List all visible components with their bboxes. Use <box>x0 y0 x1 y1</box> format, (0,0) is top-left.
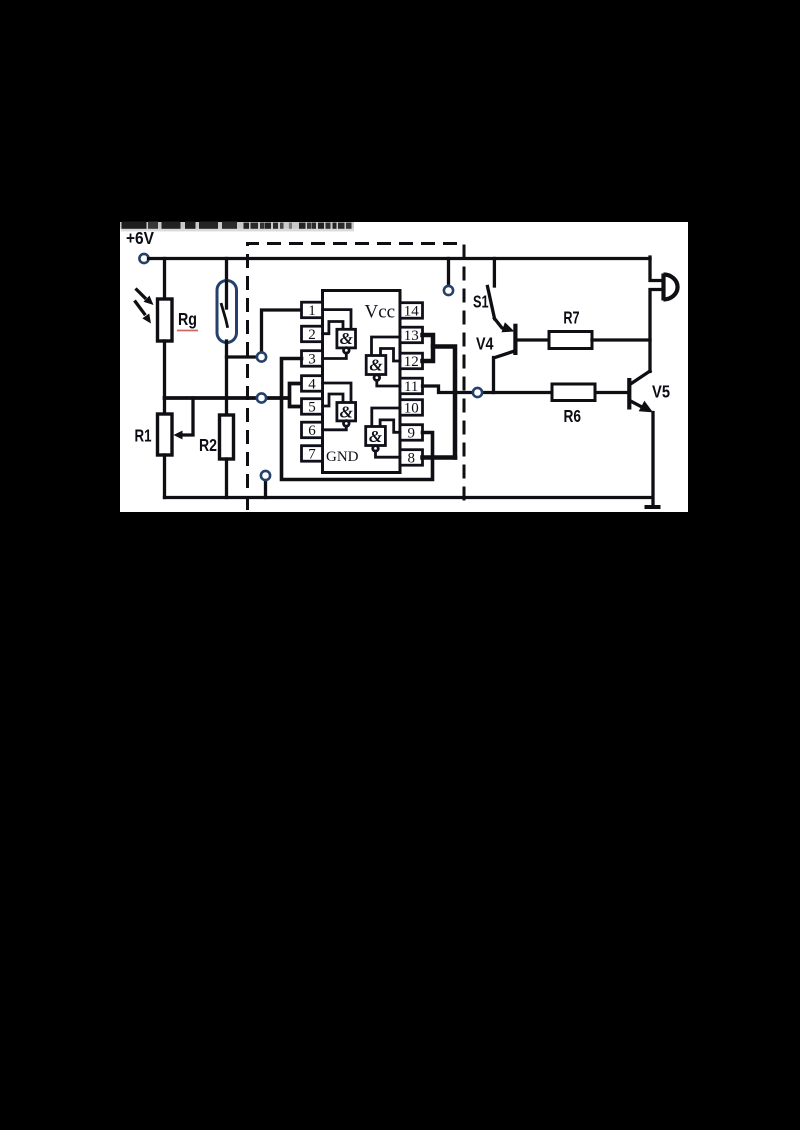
node +6V terminal <box>139 254 148 263</box>
tube inner electrode <box>225 281 228 308</box>
pin 12 <box>400 353 423 370</box>
wire R2 bottom lead <box>225 459 228 498</box>
svg-text:&: & <box>340 402 354 421</box>
wire output node to R6 <box>478 391 553 394</box>
wire gate D output to pin8 <box>376 451 401 457</box>
wire gate B output to pin11 <box>377 380 400 386</box>
svg-text:1: 1 <box>308 303 316 319</box>
wire V5 emitter to ground <box>651 413 654 508</box>
white schematic panel <box>120 222 688 512</box>
svg-text:&: & <box>340 329 354 348</box>
wire S1 stub from rail <box>493 259 496 287</box>
svg-text:&: & <box>369 356 383 375</box>
wire buzzer top lead <box>650 257 662 281</box>
nand gate A <box>337 329 356 353</box>
wire Vcc stub from rail <box>447 259 450 287</box>
wire R1 bottom lead <box>163 455 166 498</box>
svg-text:13: 13 <box>404 328 419 344</box>
pin 3 <box>302 351 323 368</box>
switch S1 blade <box>488 287 495 319</box>
pin 11 <box>400 378 423 395</box>
node Vcc terminal <box>444 286 453 295</box>
transistor V4 collector <box>494 351 515 393</box>
pin 4 <box>302 376 323 393</box>
wire top rail <box>149 257 651 260</box>
wire bottom rail <box>165 496 653 499</box>
svg-text:9: 9 <box>407 425 415 441</box>
resistor Rg body <box>158 299 173 341</box>
wire tube bottom lead to R2 <box>225 341 228 415</box>
red spellcheck underline under Rg <box>177 330 198 332</box>
svg-text:6: 6 <box>308 423 316 439</box>
transistor V5 emitter arrow <box>631 401 654 413</box>
svg-text:14: 14 <box>404 303 420 319</box>
glass tube envelope <box>217 281 237 343</box>
wire pin13-pin12 bracket <box>423 335 434 361</box>
svg-text:R1: R1 <box>135 426 152 446</box>
resistor R6 body <box>552 384 595 401</box>
svg-text:&: & <box>369 427 383 446</box>
dashed module boundary box <box>248 244 465 511</box>
svg-text:R7: R7 <box>563 307 579 327</box>
pin 7 <box>302 446 323 463</box>
resistor R7 body <box>549 332 592 349</box>
pin 2 <box>302 326 323 343</box>
transistor V4 base bar <box>513 324 517 355</box>
wire pin10 to gate D <box>372 408 400 427</box>
wire divider tap to pins 4-5 <box>165 384 302 407</box>
wire pin8 lead <box>423 455 456 460</box>
photo arrow 2 of Rg <box>135 301 152 324</box>
nand gate D <box>366 427 386 452</box>
wire pin5 to gate C <box>323 394 344 406</box>
glass tube switch lead from rail <box>225 259 228 281</box>
R1 wiper arrow <box>174 398 194 440</box>
svg-text:11: 11 <box>404 379 418 395</box>
wire R7 to buzzer branch <box>592 338 650 341</box>
transistor V4 emitter arrow <box>495 319 515 333</box>
svg-text:10: 10 <box>404 400 419 416</box>
svg-text:7: 7 <box>308 446 316 462</box>
svg-text:Rg: Rg <box>178 309 197 329</box>
svg-text:4: 4 <box>308 376 316 392</box>
nand gate C <box>337 402 356 426</box>
svg-text:R2: R2 <box>199 435 217 455</box>
svg-text:Vcc: Vcc <box>365 302 396 323</box>
wire pin11 to output node <box>423 386 474 393</box>
wire Rg bottom lead to R1 <box>163 341 166 414</box>
nand gate B <box>366 356 386 381</box>
wire pin1 to gate A <box>323 310 352 330</box>
node pin1 net terminal <box>257 352 266 361</box>
wire ground stub terminal <box>264 480 267 498</box>
transistor V5 collector <box>631 371 651 384</box>
svg-text:+6V: +6V <box>126 228 154 248</box>
wire gate C output to pin6 <box>323 426 347 430</box>
pin 13 <box>400 327 423 344</box>
wire V4 base to R7 <box>516 338 549 341</box>
IC U1 body <box>323 291 401 473</box>
node output terminal <box>473 388 482 397</box>
tube contact blade <box>221 303 228 328</box>
wire R6 to V5 base <box>595 391 627 394</box>
svg-text:V5: V5 <box>652 381 670 401</box>
node divider terminal <box>257 393 266 402</box>
svg-text:S1: S1 <box>473 292 489 312</box>
svg-text:12: 12 <box>404 354 419 370</box>
svg-text:V4: V4 <box>476 334 494 354</box>
pin 5 <box>302 399 323 416</box>
node ground terminal <box>261 471 270 480</box>
pin 10 <box>400 400 423 417</box>
pin 1 <box>302 302 323 319</box>
wire Rg top lead <box>163 259 166 300</box>
svg-text:2: 2 <box>308 327 316 343</box>
wire gate A output to pin3 <box>323 353 347 358</box>
cropped text strip artifact <box>120 222 354 232</box>
svg-text:3: 3 <box>308 351 316 367</box>
wire pin3 feedback net <box>282 359 433 480</box>
wire bracket to pin8 vertical <box>433 347 455 458</box>
wire pin12 to gate B <box>381 349 401 362</box>
wire buzzer bottom lead to V5 collector <box>650 290 662 372</box>
ground <box>645 505 661 509</box>
potentiometer R1 body <box>158 414 173 455</box>
wire pin13 to gate B <box>372 337 401 356</box>
svg-text:R6: R6 <box>564 406 582 426</box>
transistor V5 base bar <box>627 378 631 410</box>
pin 8 <box>400 450 423 467</box>
wire pin2 to gate A <box>323 322 344 334</box>
pin 14 <box>400 303 423 320</box>
svg-text:8: 8 <box>407 450 415 466</box>
pin 9 <box>400 425 423 442</box>
buzzer HA <box>664 274 678 301</box>
wire tube tap to pin1 node <box>227 310 302 357</box>
wire pin9 to gate D <box>380 420 400 432</box>
photo arrow 1 of Rg <box>136 289 154 306</box>
wire pin4 to gate C <box>323 383 352 403</box>
resistor R2 body <box>220 415 234 459</box>
pin 6 <box>302 422 323 439</box>
svg-text:GND: GND <box>326 449 359 465</box>
svg-text:5: 5 <box>308 399 316 415</box>
